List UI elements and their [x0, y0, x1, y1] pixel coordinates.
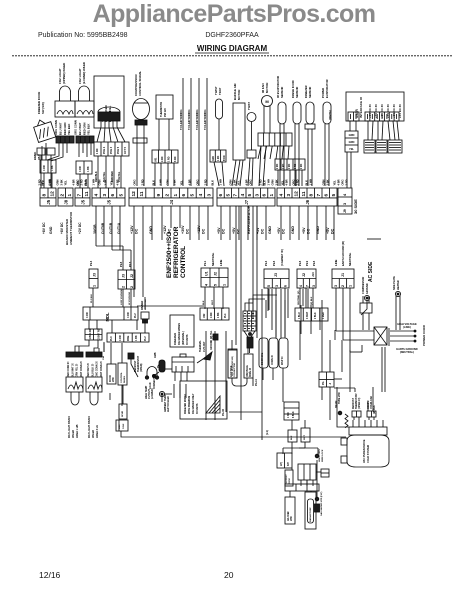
svg-text:1 WH: 1 WH: [218, 179, 222, 186]
wire freezer sensor to J6: [307, 129, 309, 186]
svg-text:RED GRN: RED GRN: [82, 123, 86, 135]
svg-text:2 RD: 2 RD: [289, 163, 291, 169]
svg-text:DRAIN: DRAIN: [335, 400, 338, 408]
defrost heater box: [298, 464, 316, 486]
DNE connector strip: [107, 333, 149, 342]
svg-text:PG: PG: [322, 381, 325, 385]
svg-text:6: 6: [262, 194, 268, 197]
svg-text:COLD SYSTEM: COLD SYSTEM: [367, 445, 370, 463]
svg-text:PL1: PL1: [203, 260, 207, 266]
svg-text:DNE: DNE: [127, 335, 130, 341]
svg-text:CUT-OUT: CUT-OUT: [203, 341, 206, 352]
svg-text:J3: J3: [274, 273, 278, 277]
connector J4: [129, 188, 213, 206]
svg-text:AREA 2 H1: AREA 2 H1: [96, 424, 99, 438]
svg-text:PM 120: PM 120: [163, 108, 167, 117]
defrost thermostat connector B: [367, 396, 376, 420]
svg-text:SENSOR: SENSOR: [295, 87, 299, 98]
defrost heater coil symbol: [345, 414, 348, 428]
svg-text:YEL: YEL: [236, 180, 240, 186]
connector J7: [217, 188, 275, 206]
harness box BLK1: [288, 430, 297, 442]
svg-text:THERMOSTAT: THERMOSTAT: [355, 393, 358, 409]
defrost terminal label strip: [285, 470, 293, 486]
svg-text:BLK: BLK: [304, 180, 308, 186]
title underline: [195, 52, 269, 54]
wire PL9 down: [299, 321, 301, 360]
svg-text:REFRIGERATOR: REFRIGERATOR: [173, 226, 180, 278]
svg-text:12: 12: [293, 191, 299, 197]
svg-text:12: 12: [50, 191, 56, 197]
svg-text:+5V: +5V: [326, 227, 330, 234]
svg-text:RED WHT 20: RED WHT 20: [88, 362, 90, 377]
svg-text:5: 5: [267, 285, 271, 287]
svg-text:4 BR: 4 BR: [115, 179, 119, 185]
connector PL9 wide: [295, 308, 328, 321]
AC side label: [367, 239, 381, 282]
svg-text:5: 5: [247, 194, 253, 197]
svg-text:2 RD: 2 RD: [344, 179, 348, 185]
plug block P3: [388, 140, 402, 153]
svg-text:4 RD: 4 RD: [127, 312, 130, 318]
svg-text:+5V: +5V: [277, 227, 281, 234]
svg-text:AC SIDE: AC SIDE: [368, 261, 374, 282]
svg-text:SW (SW): SW (SW): [41, 102, 45, 114]
svg-text:GROUND: GROUND: [366, 283, 369, 294]
svg-text:VAC PURESOURCE: VAC PURESOURCE: [363, 439, 366, 463]
wire lamp L2 down: [78, 143, 80, 153]
svg-text:J3: J3: [122, 274, 126, 278]
svg-text:PCH 5: PCH 5: [117, 146, 120, 154]
wire bend to terminal: [337, 387, 349, 427]
svg-text:SIDE PLATE: SIDE PLATE: [393, 276, 396, 290]
svg-text:FREEZER MODEL: FREEZER MODEL: [184, 393, 187, 414]
wires UI board left pins: [349, 121, 351, 131]
svg-text:DIMMER: DIMMER: [142, 300, 144, 310]
door solenoid capsule 2: [269, 338, 278, 368]
svg-text:3 BK: 3 BK: [59, 179, 63, 185]
svg-text:KIT: KIT: [287, 462, 290, 466]
svg-text:2 RD: 2 RD: [295, 179, 299, 185]
svg-text:CONTROL SIGNAL: CONTROL SIGNAL: [138, 71, 142, 96]
svg-text:BR/BK: BR/BK: [33, 152, 37, 160]
connector J1 AC line input: [332, 241, 354, 288]
freezer sensor: [304, 85, 315, 129]
connector J9 30 side: [338, 188, 358, 214]
svg-text:ICE MAKER WIRES: ICE MAKER WIRES: [178, 323, 181, 345]
defrost thermostat connector A: [352, 393, 361, 420]
lamp L2 freezer lower light: [74, 62, 95, 143]
svg-text:4 BR: 4 BR: [284, 179, 288, 185]
svg-text:2 RD: 2 RD: [140, 179, 144, 185]
wires fan lower connector down: [277, 170, 279, 186]
svg-text:WIRE 30: WIRE 30: [250, 367, 252, 377]
svg-text:3: 3: [343, 203, 347, 205]
svg-text:1: 1: [269, 194, 275, 197]
svg-text:BLU WHT: BLU WHT: [78, 122, 82, 135]
svg-text:4 BR: 4 BR: [244, 179, 248, 185]
svg-text:+8V DC: +8V DC: [60, 222, 64, 234]
svg-text:(M) BLK: (M) BLK: [374, 405, 376, 414]
ground label stack: [345, 131, 358, 152]
svg-text:POWER: POWER: [321, 88, 325, 98]
svg-text:DC: DC: [186, 228, 190, 234]
svg-text:J6: J6: [305, 199, 310, 204]
svg-text:AREA 1 HB: AREA 1 HB: [76, 424, 79, 438]
svg-text:GROUND (M) YEL: GROUND (M) YEL: [211, 330, 213, 350]
svg-text:10A: 10A: [102, 356, 105, 360]
svg-text:THERMISTR: THERMISTR: [159, 102, 163, 117]
svg-text:2 RD: 2 RD: [277, 163, 279, 169]
svg-text:ICE MAKER ONLY: ICE MAKER ONLY: [192, 393, 195, 414]
svg-text:PG-06: PG-06: [222, 408, 225, 416]
svg-text:NEUTRAL: NEUTRAL: [348, 252, 352, 266]
svg-text:4 RD: 4 RD: [79, 166, 82, 172]
svg-text:5: 5: [225, 194, 231, 197]
svg-text:4 BR: 4 BR: [71, 179, 75, 185]
svg-text:ENF2500++ISO: ENF2500++ISO: [166, 232, 173, 278]
wires J2 AC down: [299, 288, 301, 308]
freezer light bulb BK: [68, 392, 79, 438]
svg-text:3 BK: 3 BK: [232, 179, 236, 185]
svg-text:GRD: GRD: [213, 156, 215, 161]
svg-text:4 RD: 4 RD: [86, 312, 89, 318]
wires lower connector to J5: [95, 156, 121, 188]
svg-text:YEL: YEL: [332, 180, 336, 186]
fan lower connector: [275, 159, 305, 170]
svg-text:DC: DC: [237, 228, 241, 234]
svg-text:J5: J5: [46, 199, 51, 204]
svg-text:GRN: GRN: [270, 179, 274, 185]
door sw label box: [228, 349, 237, 378]
svg-text:U01: U01: [155, 157, 158, 162]
wires J1 down: [335, 288, 337, 331]
svg-text:3 BK: 3 BK: [172, 179, 176, 185]
svg-text:MOTOR: MOTOR: [237, 90, 241, 100]
wire PG-1 long run L1: [121, 431, 346, 437]
svg-text:DC: DC: [202, 228, 206, 234]
svg-text:2: 2: [164, 194, 170, 197]
svg-text:SENSOR: SENSOR: [280, 87, 284, 98]
compressor ground ring terminal: [361, 276, 370, 315]
svg-text:NEUTRAL: NEUTRAL: [211, 252, 215, 266]
svg-text:W/LED: W/LED: [92, 430, 95, 438]
wire fresh food sensor to J6: [294, 124, 296, 186]
svg-text:DISP 30: DISP 30: [282, 356, 284, 365]
svg-text:11: 11: [301, 191, 307, 196]
wires J1 to power cord plug: [336, 331, 374, 352]
svg-text:EVAPORATOR: EVAPORATOR: [325, 79, 329, 98]
fresh food light bulb LA: [88, 392, 99, 438]
svg-text:BLK: BLK: [210, 180, 214, 186]
lamp header strip A: [66, 352, 83, 377]
svg-text:12/16: 12/16: [39, 570, 61, 580]
connector J2 U1 line neutral: [201, 252, 228, 287]
bus wires strips to mid section: [96, 206, 334, 297]
svg-text:ORG CONN: ORG CONN: [74, 120, 78, 135]
svg-text:HTR: HTR: [291, 516, 293, 521]
svg-text:4 BLU: 4 BLU: [298, 312, 301, 319]
svg-text:9: 9: [156, 194, 162, 197]
svg-text:7: 7: [233, 194, 239, 197]
lamp L2 inline connector: [76, 161, 92, 188]
wires bottom cluster: [283, 442, 311, 497]
svg-text:LOAD: LOAD: [149, 382, 152, 389]
connector J5: [40, 188, 56, 206]
svg-text:GRN: GRN: [321, 179, 325, 185]
svg-text:PANEL: PANEL: [123, 375, 126, 383]
lamp L1 freezer upper light: [54, 63, 75, 143]
svg-text:TO LED WIRING: TO LED WIRING: [179, 109, 183, 130]
svg-text:ORG: ORG: [340, 179, 344, 185]
wires ice maker to lower connector: [97, 127, 101, 142]
svg-text:TO LED WIRING: TO LED WIRING: [203, 109, 207, 130]
svg-text:YEL: YEL: [63, 180, 67, 186]
svg-text:RED CONN 20: RED CONN 20: [68, 361, 70, 377]
svg-text:DC: DC: [282, 228, 286, 234]
lamp L1 inline connector: [40, 160, 56, 188]
svg-text:6: 6: [218, 194, 224, 197]
svg-text:YEL BLK: YEL BLK: [87, 123, 91, 135]
svg-text:1: 1: [93, 285, 97, 287]
connector J3-2: [118, 261, 135, 289]
svg-text:BLU BLK 20: BLU BLK 20: [92, 363, 94, 377]
svg-text:2 BK: 2 BK: [98, 334, 101, 340]
svg-text:4 BR: 4 BR: [336, 179, 340, 185]
svg-text:ONG CONN 20: ONG CONN 20: [97, 360, 99, 377]
wire MDL down: [88, 320, 90, 329]
svg-text:GRN: GRN: [165, 179, 169, 185]
connector J8: [58, 188, 73, 206]
svg-text:GND: GND: [49, 226, 53, 234]
svg-text:FUSE: FUSE: [123, 423, 125, 429]
svg-text:5: 5: [331, 194, 337, 197]
svg-text:-3: -3: [329, 382, 332, 385]
terminal block grid: [243, 311, 256, 353]
svg-text:GND: GND: [268, 226, 272, 234]
svg-text:1 RD: 1 RD: [168, 156, 171, 162]
svg-text:WHT: WHT: [304, 434, 306, 440]
svg-text:6: 6: [181, 194, 187, 197]
lamp L1 wire labels: [41, 179, 52, 186]
svg-text:TRAY: TRAY: [218, 88, 222, 95]
thermostat column: [118, 343, 127, 385]
svg-text:4: 4: [198, 194, 204, 197]
svg-text:LP): LP): [280, 462, 283, 466]
connector J4-7: [85, 328, 102, 340]
svg-text:YEL: YEL: [109, 180, 113, 186]
svg-text:4: 4: [343, 193, 347, 196]
svg-text:1: 1: [67, 194, 73, 197]
svg-text:(L1): (L1): [265, 430, 269, 435]
ice maker lower connector: [94, 142, 129, 156]
svg-text:PL4: PL4: [224, 313, 227, 318]
strip pin labels: [42, 205, 335, 245]
connector J5: [92, 188, 125, 206]
svg-text:1 RED: 1 RED: [323, 312, 325, 319]
wire color code labels above strips: [37, 179, 348, 186]
svg-text:PL8: PL8: [312, 260, 316, 266]
svg-text:6: 6: [323, 194, 329, 197]
svg-text:AMBIENT THERMISTOR: AMBIENT THERMISTOR: [69, 211, 73, 245]
lamp header strip B: [86, 352, 103, 377]
svg-text:4 RD: 4 RD: [89, 328, 92, 334]
svg-text:M: M: [265, 99, 269, 104]
svg-text:GAS WATER HTR (FLP): GAS WATER HTR (FLP): [320, 491, 323, 516]
svg-text:PCH 4: PCH 4: [103, 146, 106, 154]
lamp L2 wire labels: [77, 179, 88, 186]
svg-text:1 WH: 1 WH: [266, 179, 270, 186]
svg-text:BLU WHT 20: BLU WHT 20: [72, 362, 74, 377]
power cord prongs: [390, 330, 416, 342]
svg-text:(FM) BLUE: (FM) BLUE: [247, 365, 249, 377]
svg-text:20: 20: [224, 570, 234, 580]
svg-text:PL9: PL9: [305, 260, 309, 266]
svg-text:GRN: GRN: [97, 179, 101, 185]
svg-text:SPUR: SPUR: [122, 411, 124, 417]
svg-text:7: 7: [306, 285, 310, 287]
svg-text:PL2: PL2: [144, 336, 147, 341]
wire IM evap sensor to J6: [279, 124, 281, 186]
svg-text:FRZ LIGHT 30UNO: FRZ LIGHT 30UNO: [68, 416, 71, 438]
svg-text:TWIST: TWIST: [247, 102, 251, 110]
svg-text:J5: J5: [107, 199, 112, 204]
svg-text:TUBE HTR: TUBE HTR: [339, 392, 341, 404]
svg-text:ORG: ORG: [132, 179, 136, 185]
wires mid to lower: [110, 289, 385, 440]
svg-text:2 RD: 2 RD: [301, 163, 303, 169]
flip water htr dot: [315, 460, 324, 516]
wire J3 to MDL: [92, 288, 94, 307]
small connector below door switch: [37, 148, 55, 188]
svg-text:1 WH: 1 WH: [308, 179, 312, 186]
svg-text:(CABINET 30): (CABINET 30): [280, 249, 284, 266]
svg-text:11: 11: [139, 191, 145, 196]
svg-text:4 RD: 4 RD: [210, 312, 213, 318]
svg-text:1 RD: 1 RD: [96, 148, 99, 154]
svg-text:3 BK: 3 BK: [274, 179, 278, 185]
wires fan connector to J6: [258, 146, 261, 159]
premium ice maker box: [180, 381, 227, 419]
svg-text:3: 3: [312, 285, 316, 287]
terminal block feed wires: [245, 295, 277, 311]
svg-text:PG-11: PG-11: [255, 379, 258, 386]
svg-text:RED GRN: RED GRN: [63, 123, 67, 135]
svg-text:11: 11: [84, 191, 90, 196]
wires AC columns: [236, 206, 320, 386]
svg-text:J4: J4: [169, 199, 174, 204]
svg-text:FRESH FOOD: FRESH FOOD: [291, 80, 295, 98]
svg-text:Publication No: 5995BB2498: Publication No: 5995BB2498: [38, 32, 128, 39]
dimmer inverter: [141, 299, 149, 323]
compressor terminal box: [349, 427, 387, 435]
connector J3 plug PL3: [89, 260, 98, 288]
IM evaporator sensor: [276, 76, 286, 124]
svg-text:CONTROL: CONTROL: [180, 246, 187, 278]
svg-text:B RD: B RD: [224, 155, 226, 161]
svg-text:GRN YEL 20: GRN YEL 20: [77, 363, 79, 377]
svg-text:WITH PREMIUM: WITH PREMIUM: [188, 396, 191, 414]
wire bundle to PG-3: [321, 300, 323, 372]
svg-text:WHT CONN 20: WHT CONN 20: [81, 360, 83, 377]
thermal fuse symbol: [321, 469, 329, 477]
svg-text:GRN: GRN: [349, 133, 355, 137]
horizontal bus wires: [104, 152, 351, 472]
svg-text:J2: J2: [214, 272, 218, 276]
svg-text:POWER CORD: POWER CORD: [422, 324, 426, 346]
svg-text:+30V: +30V: [181, 225, 185, 234]
svg-text:3 BK: 3 BK: [325, 179, 329, 185]
svg-text:FRZ LIGHT 30UNO: FRZ LIGHT 30UNO: [88, 416, 91, 438]
freezer ice maker internal wires box: [170, 315, 194, 347]
main control board label ENF2500: [166, 226, 187, 278]
high temp cutout loop: [145, 367, 159, 399]
svg-text:TO LED WIRING: TO LED WIRING: [187, 109, 191, 130]
wire J3-2 down: [122, 289, 124, 307]
svg-text:J1: J1: [341, 273, 345, 277]
svg-text:PL0 BLK: PL0 BLK: [91, 293, 93, 303]
svg-text:AMBIENT TEMP: AMBIENT TEMP: [164, 394, 167, 412]
svg-text:J2: J2: [130, 274, 134, 278]
wires capsules down: [262, 368, 264, 380]
svg-text:WIRE LOCK: WIRE LOCK: [322, 449, 324, 462]
svg-text:YEL BLK: YEL BLK: [67, 123, 71, 135]
defrost bus bar: [285, 484, 319, 491]
svg-text:2 RD: 2 RD: [203, 179, 207, 185]
power cord labels: [396, 322, 426, 354]
fresh food light switch: [86, 377, 102, 392]
wire lamp L1 to J8: [58, 143, 60, 153]
wire power evap sensor to J6: [324, 124, 326, 186]
svg-text:3: 3: [334, 285, 338, 287]
svg-text:4 WD: 4 WD: [287, 412, 290, 418]
svg-text:J13: J13: [311, 272, 315, 277]
svg-text:(WHITE): (WHITE): [329, 110, 332, 120]
svg-text:1 BK: 1 BK: [89, 334, 92, 340]
wire thermal column: [121, 385, 123, 400]
svg-text:(LOWER) W/LED: (LOWER) W/LED: [82, 62, 86, 84]
LED wiring harness wires: [179, 78, 207, 186]
spur box: [119, 385, 127, 419]
svg-text:TERM: TERM: [289, 478, 291, 484]
svg-text:LINE: LINE: [219, 259, 223, 266]
svg-text:6: 6: [110, 194, 116, 197]
svg-text:DOOR: DOOR: [110, 375, 112, 382]
svg-text:W/LED: W/LED: [72, 430, 75, 438]
blue wire label box: [244, 354, 253, 378]
svg-text:+2V DC: +2V DC: [78, 222, 82, 234]
switch S1 freezer door switch: [32, 92, 56, 160]
svg-text:LINE: LINE: [119, 424, 121, 429]
svg-text:1: 1: [223, 284, 227, 286]
LP kit box: [277, 453, 292, 468]
compressor control signal sensor: [133, 71, 150, 125]
overload protector: [149, 360, 165, 389]
title rule: [12, 55, 453, 57]
svg-text:ORG: ORG: [75, 179, 79, 185]
svg-text:6 RD: 6 RD: [174, 156, 177, 162]
ice crusher solenoid relay: [172, 354, 194, 381]
adaptive defrost heater column: [285, 497, 295, 524]
svg-text:GRN: GRN: [55, 179, 59, 185]
user interface board: [346, 92, 404, 121]
svg-text:2: 2: [59, 194, 65, 197]
svg-text:WHT: WHT: [212, 299, 214, 305]
svg-text:(NEUTRAL): (NEUTRAL): [400, 350, 414, 354]
svg-text:12: 12: [131, 191, 137, 197]
svg-text:6 BLK: 6 BLK: [293, 411, 295, 418]
svg-text:4 BR: 4 BR: [187, 179, 191, 185]
